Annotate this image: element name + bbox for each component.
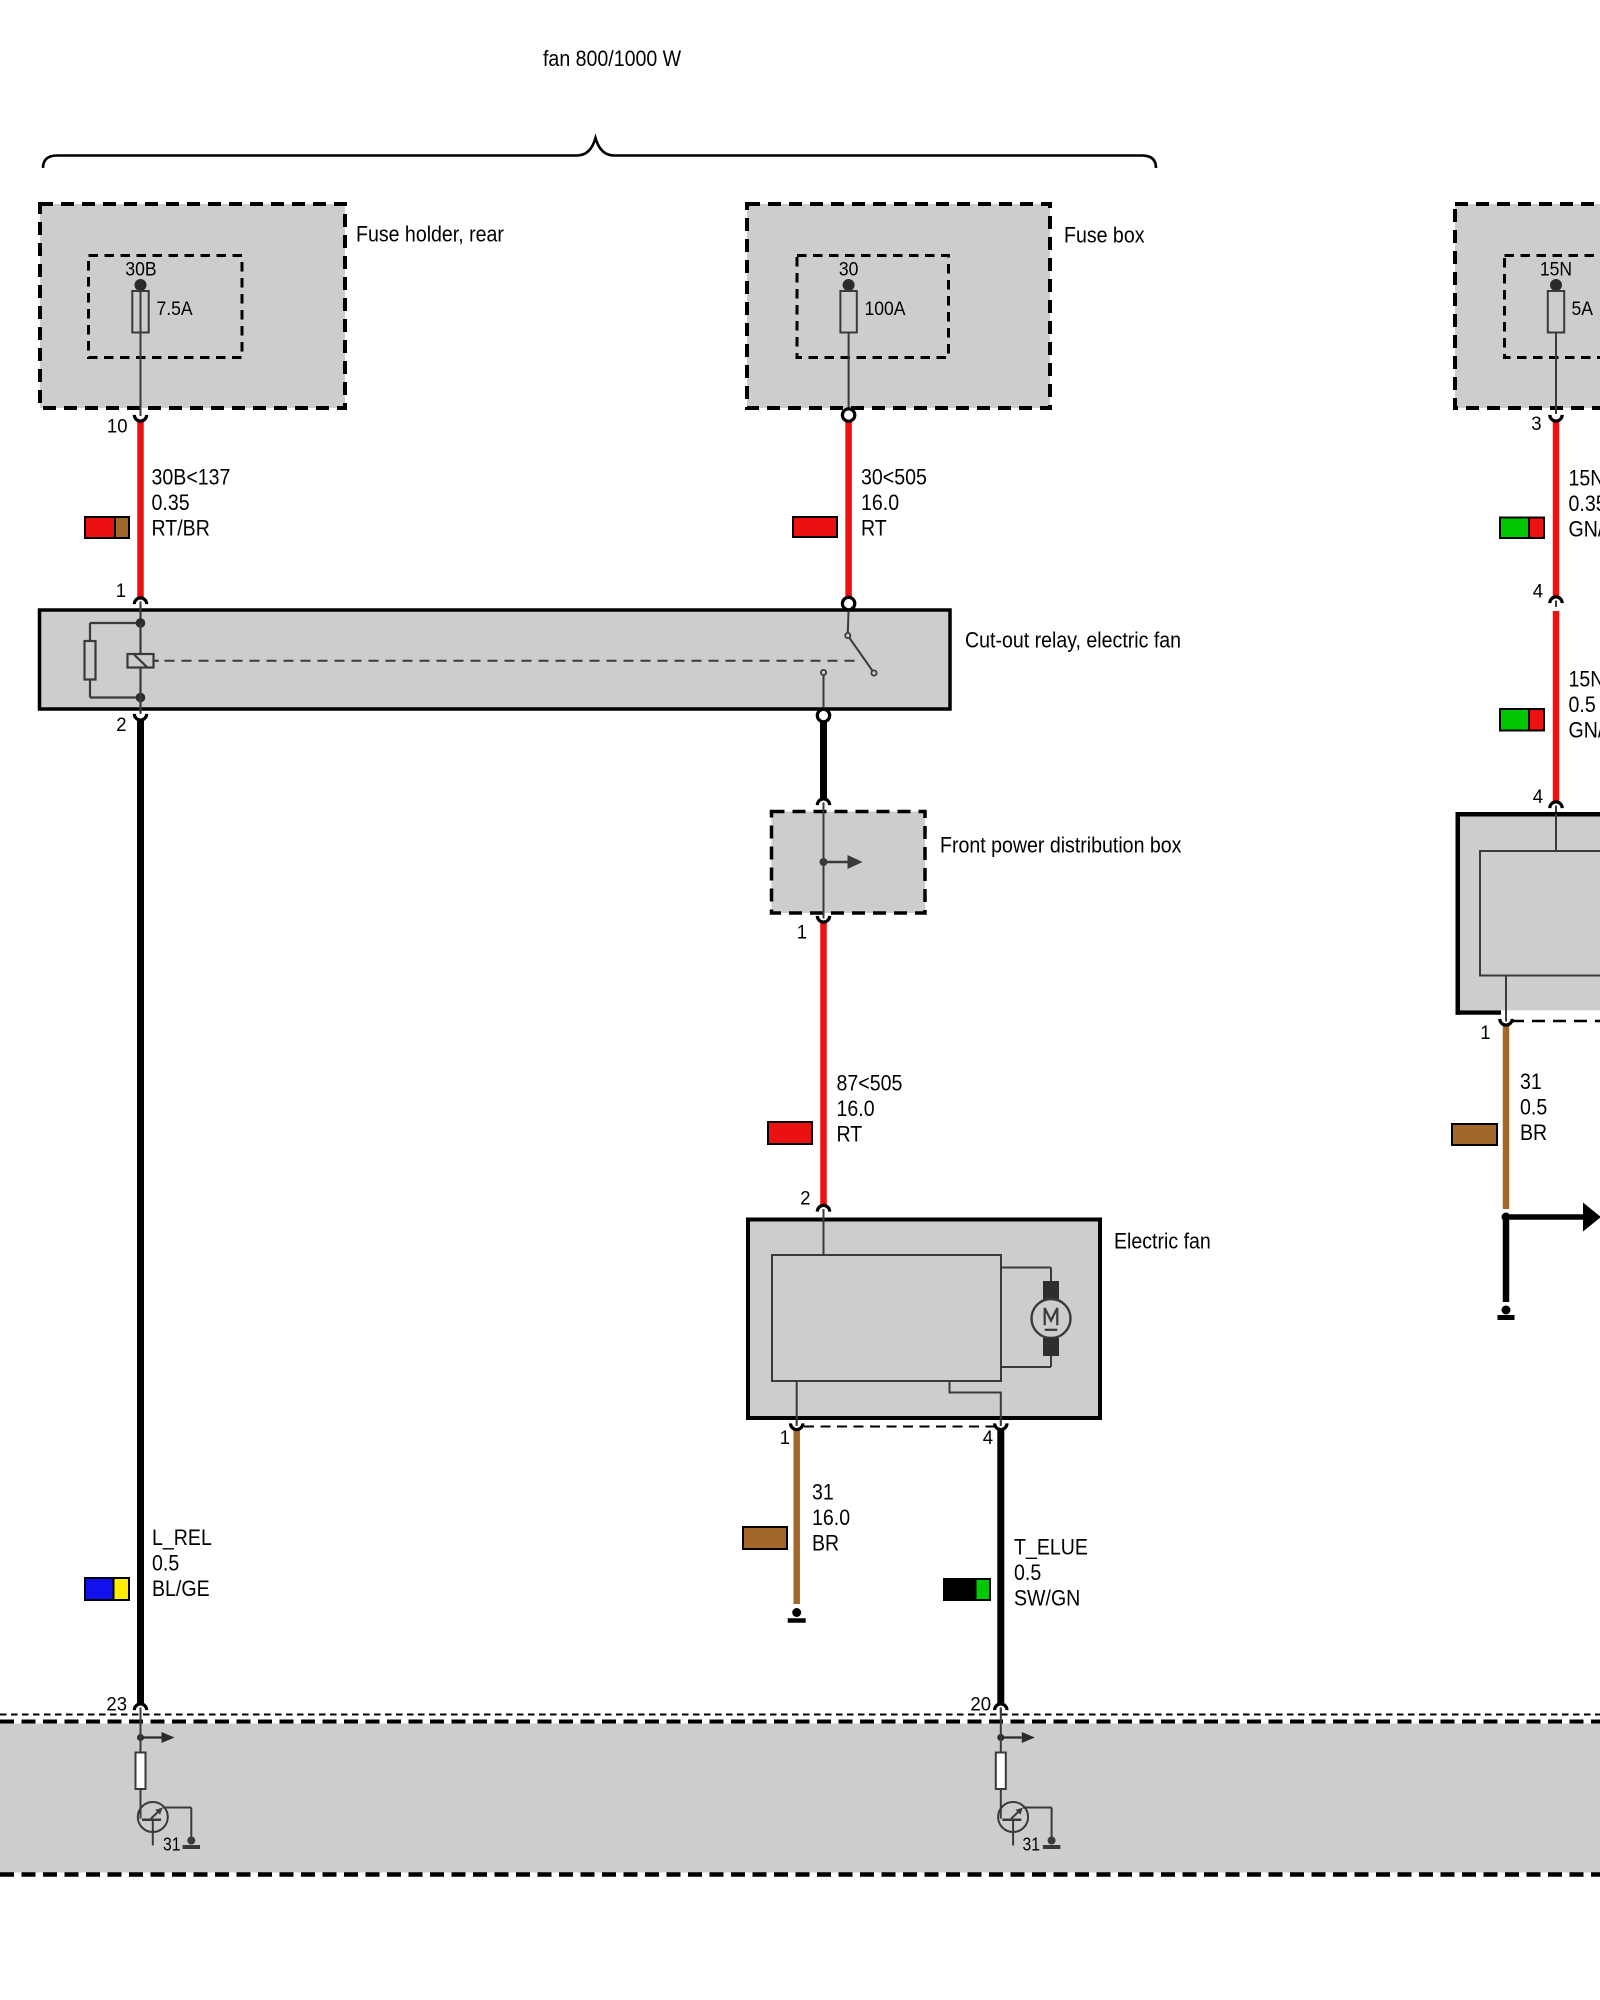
svg-text:15N<137: 15N<137 <box>1569 466 1600 491</box>
svg-text:RT: RT <box>837 1122 863 1147</box>
svg-text:0.35: 0.35 <box>152 491 190 516</box>
svg-text:Fuse box: Fuse box <box>1064 223 1145 248</box>
svg-text:16.0: 16.0 <box>812 1506 850 1531</box>
svg-text:RT: RT <box>861 516 887 541</box>
svg-text:3: 3 <box>1531 414 1541 436</box>
svg-text:2: 2 <box>116 715 126 737</box>
svg-text:30<505: 30<505 <box>861 465 927 490</box>
svg-text:T_ELUE: T_ELUE <box>1014 1535 1088 1560</box>
svg-text:0.5: 0.5 <box>1014 1561 1041 1586</box>
svg-text:5A: 5A <box>1572 297 1594 319</box>
svg-text:0.5: 0.5 <box>152 1551 179 1576</box>
svg-text:31: 31 <box>812 1480 834 1505</box>
svg-text:31: 31 <box>163 1833 180 1855</box>
svg-text:87<505: 87<505 <box>837 1071 903 1096</box>
svg-text:4: 4 <box>1533 581 1544 603</box>
svg-text:20: 20 <box>970 1694 991 1716</box>
svg-text:Cut-out relay, electric fan: Cut-out relay, electric fan <box>965 628 1181 653</box>
svg-text:16.0: 16.0 <box>837 1097 875 1122</box>
svg-text:0.5: 0.5 <box>1520 1095 1547 1120</box>
svg-text:Electric fan: Electric fan <box>1114 1229 1211 1254</box>
svg-text:23: 23 <box>106 1694 127 1716</box>
svg-text:1: 1 <box>1480 1023 1490 1045</box>
svg-text:GN/RT: GN/RT <box>1569 718 1600 743</box>
svg-text:RT/BR: RT/BR <box>152 516 210 541</box>
svg-text:31: 31 <box>1520 1070 1542 1095</box>
svg-text:100A: 100A <box>865 297 907 319</box>
svg-text:BR: BR <box>812 1531 839 1556</box>
svg-text:16.0: 16.0 <box>861 491 899 516</box>
svg-text:2: 2 <box>800 1188 810 1210</box>
svg-text:L_REL: L_REL <box>152 1526 212 1551</box>
svg-text:GN/RT: GN/RT <box>1569 517 1600 542</box>
svg-text:30B<137: 30B<137 <box>152 465 231 490</box>
svg-text:1: 1 <box>780 1428 790 1450</box>
svg-text:0.35: 0.35 <box>1569 492 1600 517</box>
svg-text:0.5: 0.5 <box>1569 693 1596 718</box>
svg-text:1: 1 <box>797 922 807 944</box>
svg-text:BR: BR <box>1520 1121 1547 1146</box>
svg-text:1: 1 <box>116 581 126 603</box>
svg-text:4: 4 <box>1533 787 1544 809</box>
svg-text:15N: 15N <box>1540 258 1572 280</box>
svg-text:SW/GN: SW/GN <box>1014 1586 1080 1611</box>
svg-text:Front power distribution box: Front power distribution box <box>940 833 1182 858</box>
svg-text:31: 31 <box>1023 1833 1040 1855</box>
svg-text:30: 30 <box>839 258 859 280</box>
svg-text:10: 10 <box>107 416 128 438</box>
svg-text:7.5A: 7.5A <box>157 297 194 319</box>
svg-text:Fuse holder, rear: Fuse holder, rear <box>356 222 504 247</box>
svg-text:30B: 30B <box>125 258 156 280</box>
svg-text:4: 4 <box>983 1428 994 1450</box>
svg-text:BL/GE: BL/GE <box>152 1577 210 1602</box>
svg-text:15N<2: 15N<2 <box>1569 667 1600 692</box>
svg-text:fan 800/1000 W: fan 800/1000 W <box>543 47 681 72</box>
